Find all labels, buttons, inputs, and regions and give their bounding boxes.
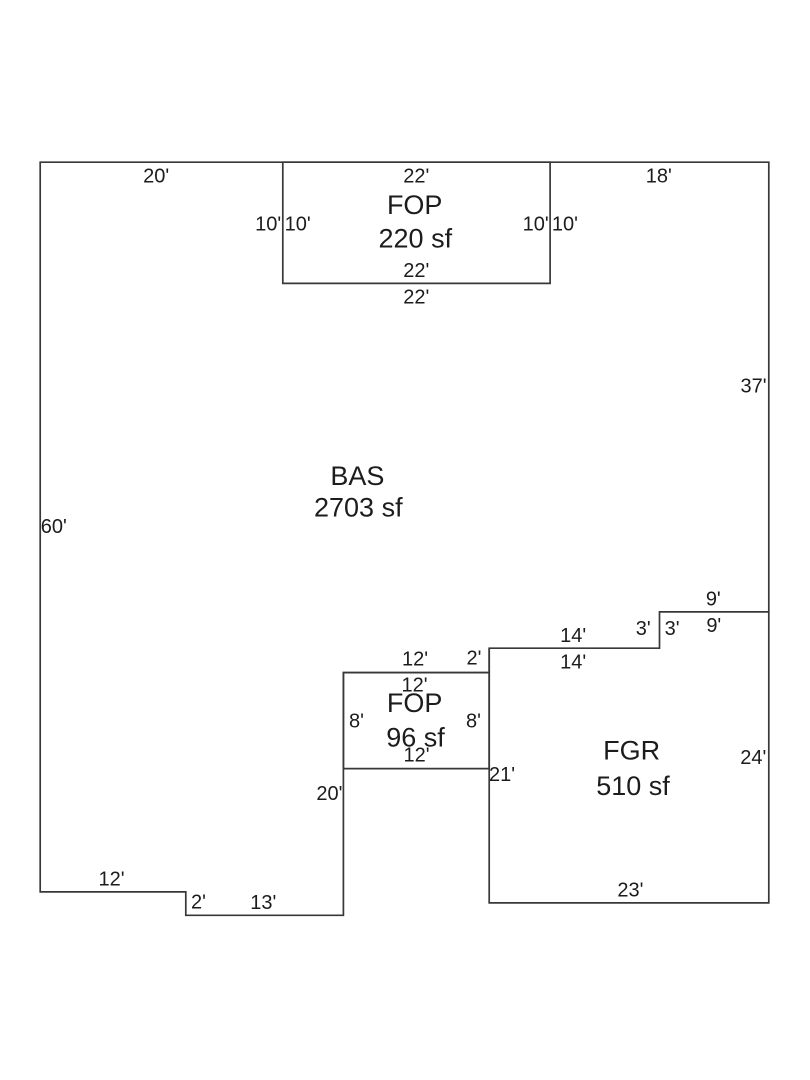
svg-text:BAS: BAS [330,461,384,491]
svg-text:8': 8' [466,710,481,732]
svg-text:8': 8' [349,710,364,732]
svg-text:14': 14' [560,625,586,647]
svg-text:2': 2' [191,892,206,914]
svg-text:24': 24' [740,747,766,769]
svg-text:3': 3' [636,618,651,640]
svg-text:10': 10' [285,214,311,236]
svg-text:22': 22' [403,165,429,187]
svg-text:21': 21' [489,764,515,786]
svg-text:37': 37' [741,376,767,398]
svg-text:96 sf: 96 sf [386,722,445,752]
svg-text:FOP: FOP [387,190,443,220]
svg-text:18': 18' [646,165,672,187]
svg-text:3': 3' [665,618,680,640]
svg-text:10': 10' [552,214,578,236]
svg-text:9': 9' [706,588,721,610]
svg-text:13': 13' [250,892,276,914]
svg-text:2703 sf: 2703 sf [314,493,403,523]
svg-text:FOP: FOP [387,688,443,718]
svg-text:60': 60' [41,516,67,538]
svg-text:510 sf: 510 sf [596,771,670,801]
svg-text:220 sf: 220 sf [379,224,453,254]
svg-text:12': 12' [402,649,428,671]
svg-text:9': 9' [706,615,721,637]
svg-text:23': 23' [617,879,643,901]
svg-text:10': 10' [255,214,281,236]
svg-text:10': 10' [523,214,549,236]
svg-text:22': 22' [403,287,429,309]
svg-text:14': 14' [560,651,586,673]
svg-text:2': 2' [467,648,482,670]
svg-text:22': 22' [403,260,429,282]
svg-text:20': 20' [316,783,342,805]
svg-text:12': 12' [98,869,124,891]
svg-text:FGR: FGR [603,736,660,766]
svg-text:20': 20' [143,165,169,187]
